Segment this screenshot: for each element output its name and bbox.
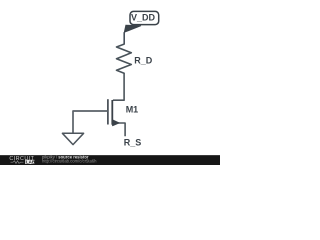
source lead with arrow — [112, 123, 125, 136]
wire R_D to drain — [113, 73, 124, 100]
svg-text:R_S: R_S — [124, 138, 142, 148]
wire V_DD to R_D — [123, 32, 125, 44]
svg-text:V_DD: V_DD — [131, 13, 156, 23]
wire gate — [73, 111, 108, 133]
svg-text:M1: M1 — [126, 105, 139, 115]
svg-text:LAB: LAB — [26, 159, 35, 164]
watermark bar — [0, 154, 220, 165]
ground — [62, 133, 83, 144]
svg-text:R_D: R_D — [134, 55, 153, 65]
channel bar — [111, 100, 113, 125]
gate bar — [107, 99, 109, 124]
transistor M1 — [108, 99, 125, 136]
net flag V_DD — [124, 11, 159, 32]
resistor R_D — [117, 44, 132, 73]
svg-text:http://circuitlab.com/c/cr5ta6: http://circuitlab.com/c/cr5ta6h — [42, 158, 97, 163]
